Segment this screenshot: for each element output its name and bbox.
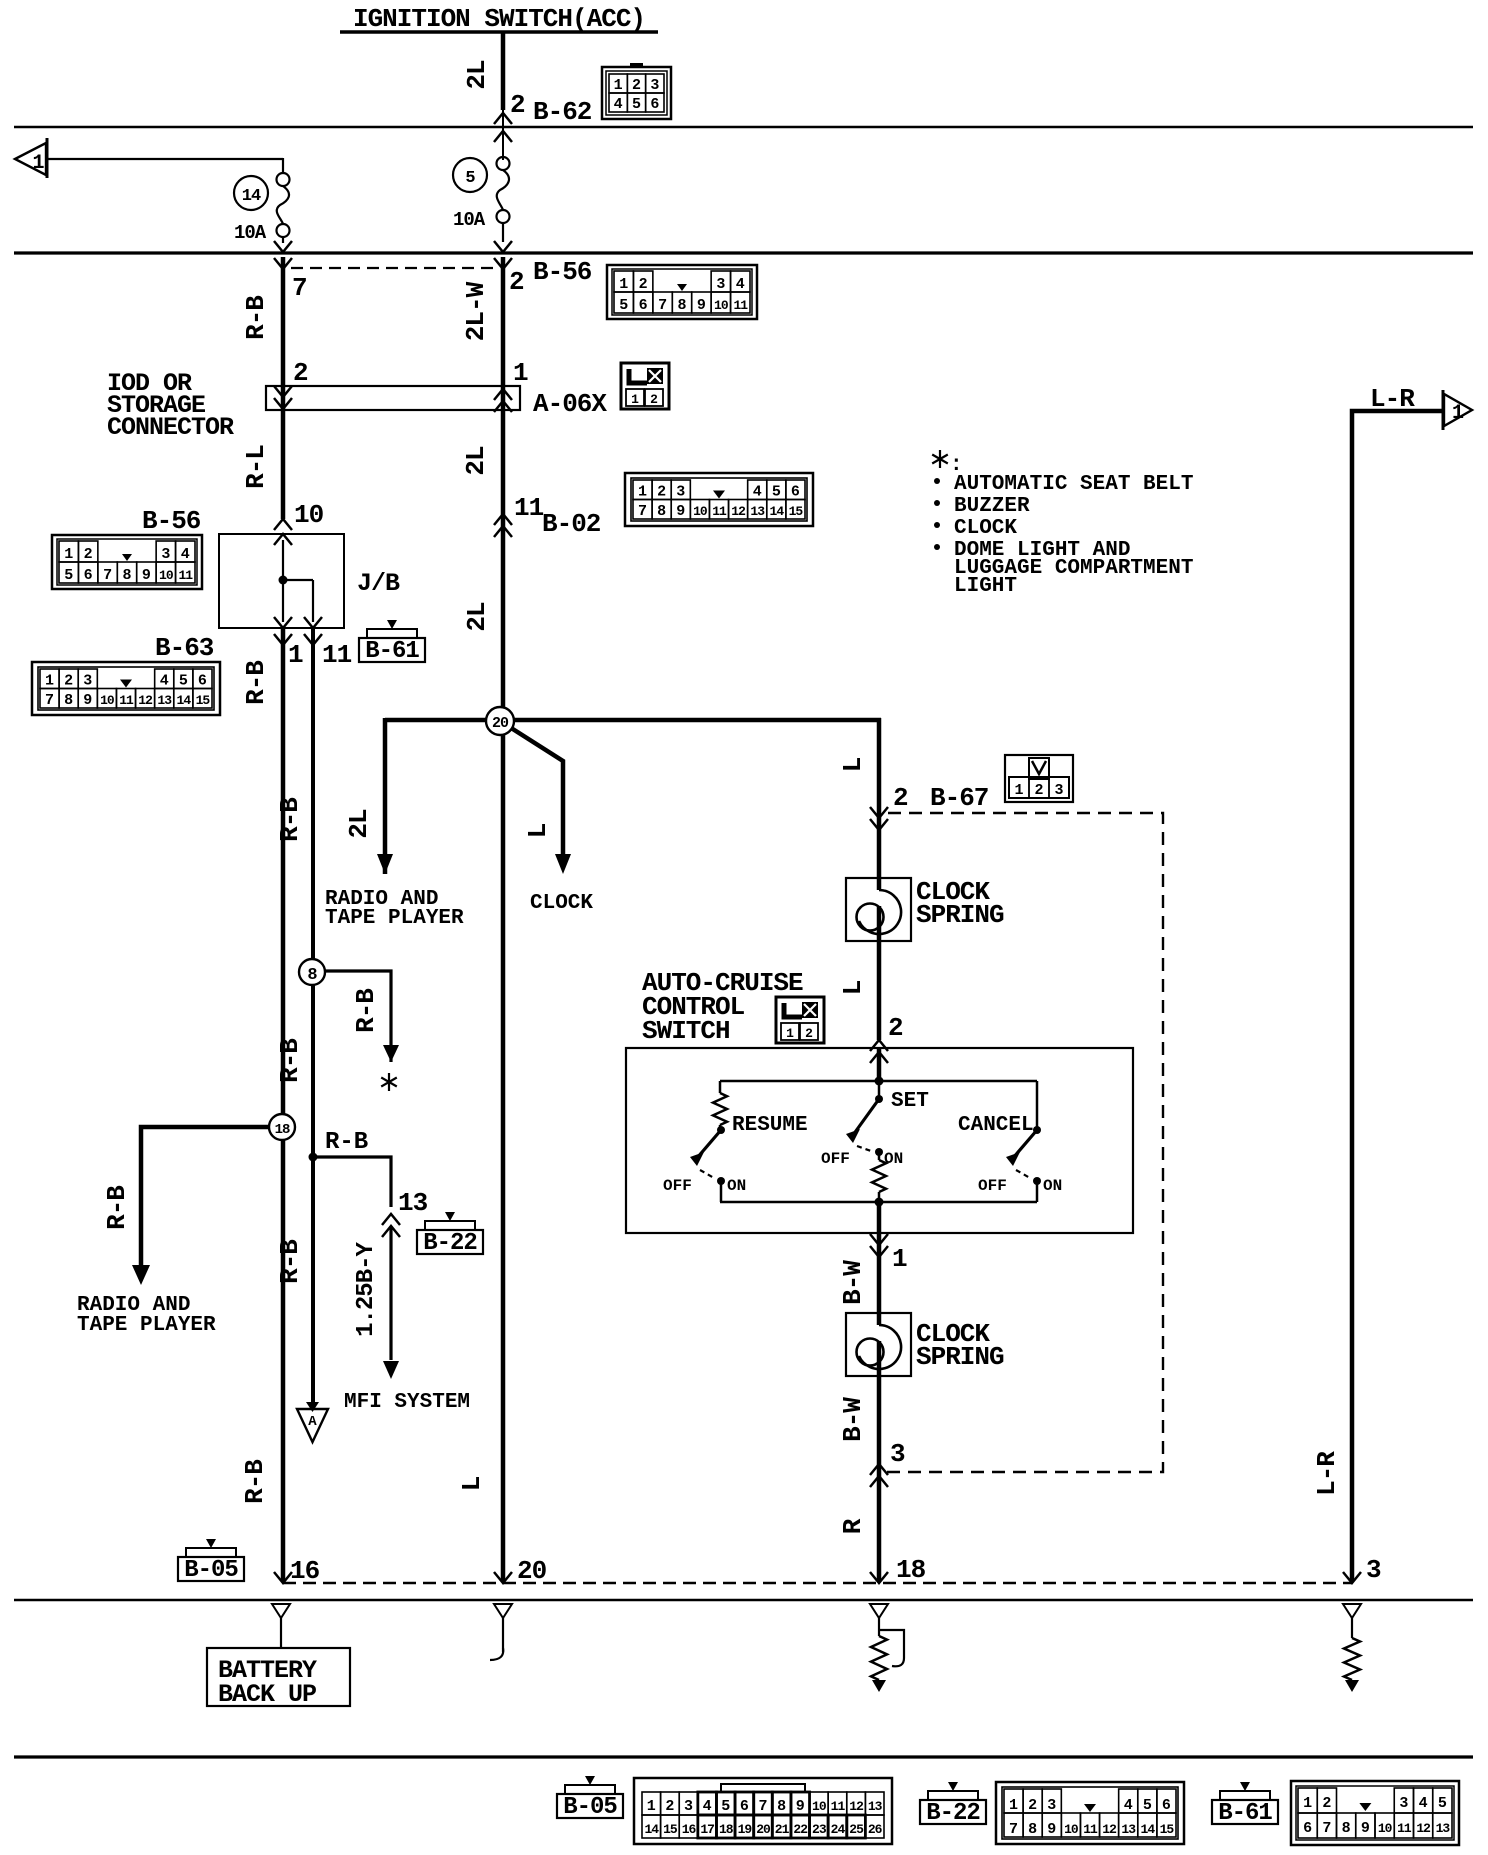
pin number 2 at auto-cruise switch (888, 1013, 903, 1043)
connector B-22 icon (417, 1212, 483, 1257)
pin number 2 at B-62 (510, 90, 525, 120)
pin number 18 at ECU (896, 1555, 926, 1585)
ECU pin mark 18 (870, 1572, 888, 1583)
IOD connector pin marks left (274, 386, 292, 409)
radio branch arrowhead lower (132, 1265, 150, 1285)
svg-text:R-B: R-B (351, 988, 381, 1033)
wire L-R (1352, 411, 1443, 1582)
svg-text:3: 3 (890, 1439, 905, 1469)
svg-text:5: 5 (465, 169, 475, 188)
svg-text:11: 11 (831, 1799, 846, 1814)
set switch arm (846, 1099, 879, 1143)
svg-text:7: 7 (103, 567, 112, 584)
svg-text:2: 2 (893, 783, 908, 813)
battery backup label (218, 1656, 317, 1709)
wire label R-B below J/B (241, 660, 271, 705)
wire 2L center (501, 257, 506, 1582)
cancel ON contact (1033, 1177, 1062, 1195)
MFI arrowhead (383, 1361, 399, 1379)
resume wire to bottom bus (720, 1181, 723, 1202)
wire label 2L (462, 60, 492, 90)
junction circle 20 (486, 707, 514, 735)
pin number 2 at B-56 center wire (509, 267, 524, 297)
svg-text:3: 3 (1399, 1795, 1408, 1812)
connector B-05 icon (left) (178, 1539, 244, 1584)
svg-text:4: 4 (614, 96, 623, 113)
fuse 14 circle ref (234, 176, 268, 210)
resume ON contact (717, 1177, 746, 1195)
MFI system label (344, 1391, 470, 1414)
svg-text:19: 19 (738, 1822, 753, 1837)
ECU pin mark 3 (1343, 1572, 1361, 1583)
connector B-61 icon (legend) (1212, 1782, 1278, 1827)
svg-text:7: 7 (1009, 1821, 1018, 1838)
svg-text:11: 11 (733, 298, 748, 313)
svg-text:L: L (838, 757, 868, 772)
J/B internal wire (279, 540, 314, 622)
fuse 14 output wire (282, 237, 284, 243)
cancel feed wire (1036, 1081, 1039, 1130)
connector B-62 name label (533, 97, 592, 127)
ground point A triangle (297, 1402, 328, 1442)
wire B-W clock spring to B-67 (877, 1377, 882, 1472)
fuse 5 (10A) symbol (497, 157, 510, 223)
connector B-02 pin diagram (625, 473, 813, 526)
IOD connector pin marks right (494, 389, 512, 412)
set OFF label (821, 1150, 850, 1168)
svg-text:13: 13 (750, 504, 765, 519)
svg-text:9: 9 (676, 503, 685, 520)
MFI branch wire (313, 1157, 391, 1207)
wire label L below clock spring (838, 980, 868, 995)
svg-text:ON: ON (1043, 1177, 1062, 1195)
auto-cruise inlet marks (870, 1040, 888, 1063)
svg-text:BUZZER: BUZZER (954, 495, 1030, 518)
svg-text:2: 2 (509, 267, 524, 297)
svg-text:1: 1 (892, 1244, 907, 1274)
connector B-56 pin diagram (top) (607, 265, 757, 319)
svg-text:7: 7 (292, 273, 307, 303)
svg-text:9: 9 (796, 1798, 805, 1815)
fuse 14 (10A) symbol (277, 173, 290, 237)
svg-text:3: 3 (676, 484, 685, 501)
wire from junction 20 to radio branch (385, 718, 881, 723)
svg-text:R-B: R-B (102, 1185, 132, 1230)
radio branch wire 2L (383, 718, 388, 874)
svg-text:7: 7 (658, 297, 667, 314)
wire L to clock spring (877, 718, 882, 878)
J/B outlet marks pin 11 (304, 617, 322, 645)
svg-text:CONNECTOR: CONNECTOR (107, 413, 234, 442)
svg-text:6: 6 (198, 673, 207, 690)
svg-text:10: 10 (693, 504, 708, 519)
pin 1 IOD connector (513, 358, 528, 388)
svg-text:13: 13 (157, 693, 172, 708)
IOD or storage connector label (107, 369, 234, 442)
connector B-02 name label (542, 509, 601, 539)
svg-text:13: 13 (1121, 1822, 1136, 1837)
svg-text:A-06X: A-06X (533, 389, 607, 419)
svg-text:R-B: R-B (275, 797, 305, 842)
connector B-63 name label (155, 633, 214, 663)
wire R-B branch to J/B pin 11 output (311, 628, 315, 1405)
junction bus crossing at x503 (494, 241, 512, 269)
svg-text:ON: ON (884, 1150, 903, 1168)
svg-text:26: 26 (868, 1822, 883, 1837)
note item buzzer (934, 495, 1030, 518)
wire label 1.25B-Y (353, 1242, 380, 1337)
svg-text:8: 8 (64, 692, 73, 709)
svg-text:18: 18 (275, 1122, 290, 1138)
svg-text:22: 22 (793, 1822, 808, 1837)
cancel off-on dashes (1016, 1170, 1030, 1178)
svg-text:10: 10 (1064, 1822, 1079, 1837)
wire label 2L above junction (462, 602, 492, 632)
svg-text:17: 17 (700, 1822, 714, 1837)
switch bottom bus (720, 1201, 1037, 1204)
svg-text:12: 12 (1102, 1822, 1117, 1837)
wire label L above B-67 (838, 757, 868, 772)
connector B-05 pin diagram (634, 1778, 892, 1844)
svg-text:3: 3 (83, 673, 92, 690)
offpage arrow 1 (right) (1443, 390, 1472, 430)
pin 13 B-22 marks (382, 1214, 400, 1237)
wire 2L from ignition switch to connector B-62 (501, 32, 506, 110)
svg-text:14: 14 (242, 187, 261, 206)
pin number 1 below J/B (288, 640, 303, 670)
right ground lead (1343, 1604, 1361, 1638)
svg-text:6: 6 (639, 297, 648, 314)
connector A-06X name label (533, 389, 607, 419)
wire label 2L radio branch (344, 809, 374, 839)
svg-text:16: 16 (290, 1556, 320, 1586)
svg-text:A: A (308, 1414, 317, 1430)
svg-text:9: 9 (697, 297, 706, 314)
svg-text:B-W: B-W (838, 1260, 868, 1305)
wire label R (838, 1518, 868, 1534)
svg-text:4: 4 (160, 673, 169, 690)
svg-text:25: 25 (849, 1822, 864, 1837)
svg-text:11: 11 (119, 693, 134, 708)
svg-text:15: 15 (789, 504, 804, 519)
svg-text:1: 1 (638, 484, 647, 501)
pin number 3 at ECU right (1366, 1555, 1381, 1585)
wire label R-B between circles (275, 797, 305, 842)
svg-text:12: 12 (731, 504, 746, 519)
svg-text:6: 6 (1303, 1820, 1312, 1837)
svg-text:2: 2 (639, 276, 648, 293)
svg-text:LIGHT: LIGHT (954, 575, 1017, 598)
svg-text:10: 10 (812, 1799, 827, 1814)
asterisk load marker (381, 1073, 397, 1091)
connector B-67 lower crossing marks (870, 1464, 888, 1487)
svg-text:SET: SET (891, 1090, 929, 1113)
IOD/storage connector box (266, 386, 520, 410)
svg-text:7: 7 (45, 692, 54, 709)
fuse 5 rating 10A (453, 209, 486, 231)
svg-text:ON: ON (727, 1177, 746, 1195)
pin number 16 (290, 1556, 320, 1586)
switch top bus (720, 1080, 1037, 1083)
svg-text:B-W: B-W (838, 1397, 868, 1442)
svg-text:9: 9 (83, 692, 92, 709)
note item clock (934, 517, 1017, 540)
radio and tape player label lower (77, 1294, 216, 1337)
svg-text:1: 1 (647, 1798, 656, 1815)
svg-text:R-B: R-B (275, 1239, 305, 1284)
svg-text:B-67: B-67 (930, 783, 988, 813)
svg-text:1: 1 (786, 1026, 794, 1041)
wire label B-W lower (838, 1397, 868, 1442)
svg-text:2: 2 (657, 484, 666, 501)
seat-belt branch arrowhead (383, 1045, 399, 1062)
svg-text:14: 14 (645, 1822, 660, 1837)
svg-text:14: 14 (177, 693, 192, 708)
svg-text:R-L: R-L (241, 445, 271, 489)
cancel label (958, 1114, 1034, 1137)
connector B-62 crossing marks (494, 110, 512, 160)
svg-text:B-62: B-62 (533, 97, 592, 127)
svg-text:11: 11 (322, 640, 352, 670)
svg-text:10: 10 (294, 500, 324, 530)
connector B-02 crossing marks (494, 514, 512, 537)
svg-text:3: 3 (1047, 1797, 1056, 1814)
seat-belt branch wire (325, 971, 391, 1062)
svg-text:L: L (838, 980, 868, 995)
svg-text:7: 7 (758, 1798, 767, 1815)
resume switch arm (690, 1126, 725, 1166)
svg-text:2: 2 (510, 90, 525, 120)
svg-text:11: 11 (514, 493, 544, 523)
svg-text:2: 2 (1028, 1797, 1037, 1814)
svg-text:1: 1 (45, 673, 54, 690)
svg-text:5: 5 (721, 1798, 730, 1815)
svg-text:15: 15 (663, 1822, 678, 1837)
svg-text:11: 11 (178, 568, 193, 583)
wire label B-W (838, 1260, 868, 1305)
wire B-W switch output (877, 1202, 882, 1313)
svg-text:13: 13 (398, 1188, 428, 1218)
svg-text:6: 6 (650, 96, 659, 113)
svg-text:B-61: B-61 (1218, 1800, 1272, 1827)
svg-text:20: 20 (517, 1556, 547, 1586)
svg-text:B-56: B-56 (142, 506, 201, 536)
svg-text:B-61: B-61 (365, 638, 419, 665)
svg-text:R-B: R-B (241, 295, 271, 340)
svg-text:7: 7 (638, 503, 647, 520)
connector B-22 pin diagram (996, 1782, 1184, 1844)
svg-text:1: 1 (288, 640, 303, 670)
junction dot R-B MFI branch (309, 1153, 318, 1162)
steering column dashed boundary (886, 813, 1163, 1472)
wire label 2L-W (461, 281, 491, 341)
svg-text:5: 5 (772, 484, 781, 501)
pin number 20 (517, 1556, 547, 1586)
pin number 7 at B-56 (292, 273, 307, 303)
svg-text:2: 2 (1322, 1795, 1331, 1812)
pin number 10 at J/B (294, 500, 324, 530)
wire label R-B seat-belt branch (351, 988, 381, 1033)
svg-text:5: 5 (64, 567, 73, 584)
svg-text:SWITCH: SWITCH (642, 1016, 730, 1046)
cancel switch arm (1006, 1126, 1041, 1166)
svg-text:5: 5 (1143, 1797, 1152, 1814)
junction dot switch output (875, 1198, 884, 1207)
svg-text:11: 11 (712, 504, 727, 519)
L-R top label (1370, 384, 1415, 414)
svg-text:5: 5 (632, 96, 641, 113)
wire label L bottom (457, 1476, 487, 1491)
svg-text:2: 2 (632, 77, 641, 94)
svg-text:6: 6 (740, 1798, 749, 1815)
connector B-56 name label (top) (533, 257, 592, 287)
fuse 5 circle ref (453, 158, 487, 192)
svg-text:18: 18 (896, 1555, 926, 1585)
svg-text:TAPE PLAYER: TAPE PLAYER (77, 1314, 216, 1337)
svg-text:2: 2 (64, 673, 73, 690)
set ON contact (875, 1148, 903, 1168)
svg-text:2L-W: 2L-W (461, 281, 491, 341)
svg-text:21: 21 (775, 1822, 790, 1837)
connector A-06X pin diagram (621, 363, 669, 409)
svg-text:7: 7 (1322, 1820, 1331, 1837)
svg-text:20: 20 (492, 715, 509, 732)
svg-text:1: 1 (1303, 1795, 1312, 1812)
svg-text:L-R: L-R (1312, 1451, 1342, 1496)
svg-text:1.25B-Y: 1.25B-Y (353, 1242, 380, 1337)
svg-text:15: 15 (1160, 1822, 1175, 1837)
wire label R-L (241, 445, 271, 489)
switch outlet marks (870, 1234, 888, 1257)
junction block J/B inlet marks (274, 519, 292, 545)
junction dot switch input (875, 1077, 884, 1086)
svg-text:3: 3 (650, 77, 659, 94)
offpage arrow 1 (left) (15, 138, 47, 178)
svg-text:L: L (457, 1476, 487, 1491)
svg-text:2L: 2L (462, 60, 492, 90)
wire label R-B (241, 295, 271, 340)
wire from B-62 to fuse 5 (0, 0, 1, 1)
svg-text:14: 14 (770, 504, 785, 519)
svg-text:6: 6 (84, 567, 93, 584)
svg-text:1: 1 (32, 152, 44, 175)
pin number 11 at B-02 (514, 493, 544, 523)
wire label 2L (below A-06X) (461, 446, 491, 476)
resume off-on dashes (700, 1170, 714, 1178)
svg-text:9: 9 (1361, 1820, 1370, 1837)
svg-text:23: 23 (812, 1822, 827, 1837)
wire into switch (877, 1048, 882, 1081)
right ground resistor (1344, 1638, 1360, 1692)
wire label R-B mid (275, 1038, 305, 1083)
junction block J/B box (219, 534, 344, 628)
cancel wire to bottom bus (1036, 1181, 1039, 1202)
junction circle 8 (299, 959, 325, 985)
svg-text:RESUME: RESUME (732, 1114, 808, 1137)
clock spring 1 label (916, 877, 1004, 930)
cancel OFF label (978, 1177, 1007, 1195)
clock branch diagonal wire (508, 726, 563, 856)
cruise ground lead (870, 1604, 904, 1666)
svg-text:10A: 10A (453, 209, 486, 231)
svg-text:1: 1 (1452, 402, 1464, 425)
svg-text:12: 12 (138, 693, 153, 708)
wire 1.25B-Y (389, 1226, 392, 1360)
svg-text:J/B: J/B (357, 569, 400, 598)
clock ground lead (490, 1604, 512, 1660)
svg-text:10A: 10A (234, 222, 267, 244)
svg-text:8: 8 (657, 503, 666, 520)
clock spring 1 (column side) (846, 878, 911, 941)
svg-text:6: 6 (1162, 1797, 1171, 1814)
svg-text:12: 12 (849, 1799, 864, 1814)
wire label R-B MFI branch (325, 1129, 368, 1156)
sheet separator line (14, 1755, 1473, 1758)
resume resistor (713, 1081, 727, 1130)
pin number 1 below switch (892, 1244, 907, 1274)
svg-text:8: 8 (122, 567, 131, 584)
svg-text:TAPE PLAYER: TAPE PLAYER (325, 907, 464, 930)
svg-text:10: 10 (159, 568, 174, 583)
connector B-56 pin diagram (left) (52, 535, 202, 589)
svg-text:4: 4 (181, 546, 190, 563)
wire label R-B bottom (240, 1459, 270, 1504)
wire label R-B above B-05 (275, 1239, 305, 1284)
radio branch arrowhead (377, 854, 393, 874)
svg-text:2: 2 (293, 358, 308, 388)
connector B-62 pin diagram (602, 63, 671, 119)
pin number 11 below J/B (322, 640, 352, 670)
svg-text:24: 24 (831, 1822, 846, 1837)
svg-text:6: 6 (791, 484, 800, 501)
svg-text:B-56: B-56 (533, 257, 592, 287)
connector B-61 icon (359, 620, 425, 665)
svg-text:10: 10 (100, 693, 115, 708)
set switch contact dot (875, 1081, 883, 1103)
auto-cruise control switch label (642, 968, 803, 1046)
svg-text:4: 4 (736, 276, 745, 293)
svg-text:AUTOMATIC SEAT BELT: AUTOMATIC SEAT BELT (954, 473, 1193, 496)
connector B-63 pin diagram (32, 662, 220, 715)
svg-text:2: 2 (84, 546, 93, 563)
fuse 5 output wire (502, 223, 504, 242)
svg-text:B-63: B-63 (155, 633, 214, 663)
svg-text:OFF: OFF (663, 1177, 692, 1195)
svg-text:10: 10 (1378, 1821, 1393, 1836)
svg-text:8: 8 (1342, 1820, 1351, 1837)
svg-text:CLOCK: CLOCK (530, 892, 593, 915)
svg-text:10: 10 (714, 298, 729, 313)
svg-text:8: 8 (307, 966, 317, 985)
pin 2 IOD connector (293, 358, 308, 388)
note item automatic seat belt (934, 473, 1193, 496)
svg-text:3: 3 (716, 276, 725, 293)
svg-text:11: 11 (1397, 1821, 1412, 1836)
bus line (fuse output bus) (14, 251, 1473, 254)
svg-text:SPRING: SPRING (916, 900, 1004, 930)
svg-text:3: 3 (684, 1798, 693, 1815)
svg-text:2: 2 (888, 1013, 903, 1043)
connector B-67 name label (930, 783, 988, 813)
svg-text:BACK UP: BACK UP (218, 1680, 316, 1709)
pin number 3 at B-67 lower (890, 1439, 905, 1469)
svg-text:12: 12 (1416, 1821, 1431, 1836)
pin number 2 at B-67 (893, 783, 908, 813)
svg-text:2: 2 (665, 1798, 674, 1815)
auto-cruise connector icon (776, 997, 824, 1043)
connector B-56 name label (left) (142, 506, 201, 536)
svg-text:OFF: OFF (821, 1150, 850, 1168)
